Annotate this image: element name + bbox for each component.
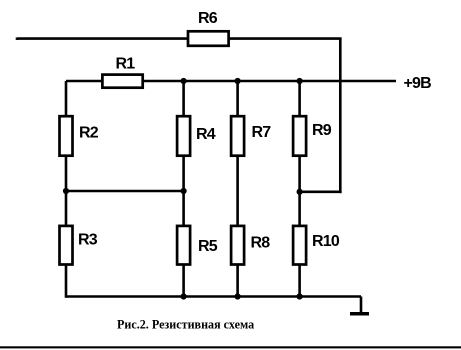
- svg-text:R7: R7: [252, 124, 272, 141]
- svg-text:R2: R2: [79, 125, 99, 142]
- svg-text:R1: R1: [116, 56, 136, 73]
- svg-text:R10: R10: [312, 233, 340, 250]
- svg-text:R5: R5: [198, 238, 218, 255]
- svg-text:+9В: +9В: [404, 75, 432, 92]
- svg-text:R4: R4: [196, 126, 216, 143]
- svg-text:R3: R3: [78, 232, 98, 249]
- svg-text:Рис.2. Резистивная схема: Рис.2. Резистивная схема: [117, 318, 254, 332]
- svg-text:R6: R6: [198, 10, 218, 27]
- svg-text:R8: R8: [251, 235, 271, 252]
- svg-text:R9: R9: [312, 122, 332, 139]
